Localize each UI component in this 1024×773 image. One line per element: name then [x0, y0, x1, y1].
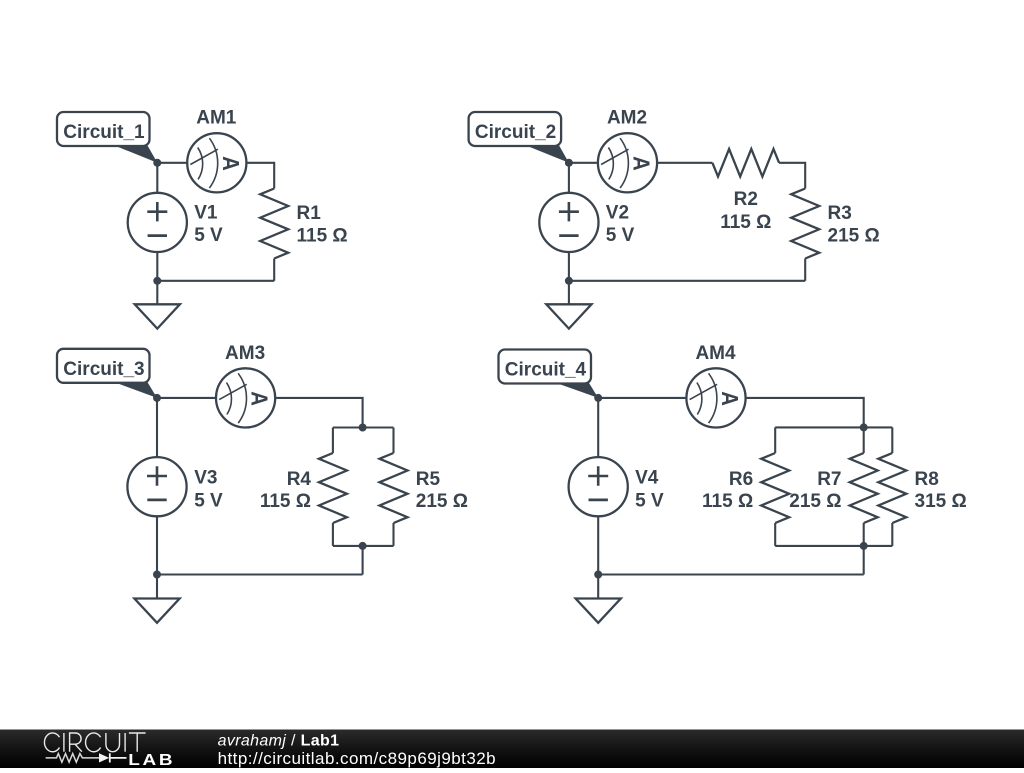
svg-text:AM2: AM2 — [607, 108, 647, 129]
wire R8 leads — [891, 427, 893, 546]
svg-text:R3: R3 — [828, 203, 852, 224]
wire bottom rail circuit 4 — [598, 573, 864, 575]
wire R1 bottom lead — [273, 259, 275, 281]
ground circuit 4 — [576, 599, 621, 623]
ammeter AM4 — [686, 368, 745, 427]
voltage source V1 — [128, 193, 187, 252]
wire node2 to V2 plus — [568, 163, 570, 193]
resistor R6 (vertical) — [761, 453, 789, 523]
ammeter AM2 — [598, 133, 657, 192]
node circuit1 bottom junction — [153, 277, 161, 285]
node circuit3 parallel top junction — [359, 424, 367, 432]
node circuit2 bottom junction — [565, 277, 573, 285]
ground circuit 3 — [134, 599, 179, 623]
wire V2 minus to bottom — [568, 252, 570, 281]
svg-text:avrahamj / Lab1: avrahamj / Lab1 — [218, 732, 340, 749]
svg-text:5 V: 5 V — [194, 490, 223, 511]
svg-text:115 Ω: 115 Ω — [260, 491, 311, 512]
svg-text:http://circuitlab.com/c89p69j9: http://circuitlab.com/c89p69j9bt32b — [218, 749, 496, 768]
svg-text:R1: R1 — [297, 203, 322, 224]
svg-text:315 Ω: 315 Ω — [915, 491, 967, 512]
wire to ground 2 — [568, 281, 570, 305]
resistor R8 (vertical) — [878, 453, 906, 523]
label callout Circuit_3 — [57, 349, 157, 398]
svg-text:115 Ω: 115 Ω — [702, 491, 753, 512]
voltage source V3 — [127, 457, 186, 516]
svg-text:AM3: AM3 — [225, 343, 265, 364]
wire AM1 to R1 top — [246, 163, 274, 189]
CircuitLab logo text CIRCUIT — [44, 733, 145, 752]
svg-text:LAB: LAB — [128, 752, 175, 768]
svg-text:215 Ω: 215 Ω — [828, 226, 880, 247]
svg-text:215 Ω: 215 Ω — [789, 491, 841, 512]
resistor R5 (vertical) — [380, 453, 408, 523]
wire V1 minus to bottom — [156, 252, 158, 281]
svg-text:R7: R7 — [817, 469, 841, 490]
label callout Circuit_2 — [469, 112, 569, 163]
node circuit2 top junction — [565, 159, 573, 167]
wire R2 to R3 top — [779, 163, 805, 189]
wire R5 leads — [392, 428, 394, 546]
wire R3 bottom lead — [804, 259, 806, 281]
wire parallel bottom to rail — [362, 546, 364, 575]
CircuitLab logo diode — [99, 753, 109, 762]
svg-text:R4: R4 — [287, 469, 312, 490]
svg-text:V1: V1 — [194, 202, 218, 223]
wire node4 to AM4 — [598, 397, 686, 399]
svg-text:5 V: 5 V — [635, 490, 664, 511]
wire node3 to V3 plus — [156, 398, 158, 457]
wire R7 leads — [863, 427, 865, 546]
svg-text:115 Ω: 115 Ω — [297, 226, 348, 247]
resistor R7 (vertical) — [850, 453, 878, 523]
wire AM4 to parallel top — [746, 398, 864, 428]
node circuit4 parallel bottom junction — [860, 542, 868, 550]
CircuitLab logo resistor squiggle — [46, 754, 99, 763]
node circuit4 bottom junction — [594, 571, 602, 579]
svg-text:5 V: 5 V — [606, 225, 635, 246]
wire node4 to V4 plus — [597, 398, 599, 457]
svg-text:A: A — [717, 391, 744, 406]
wire bottom rail circuit 1 — [157, 280, 274, 282]
svg-text:A: A — [628, 156, 655, 171]
label callout Circuit_4 — [499, 350, 599, 398]
svg-text:115 Ω: 115 Ω — [720, 212, 771, 233]
ammeter AM1 — [187, 133, 246, 192]
svg-text:A: A — [217, 156, 244, 171]
ground circuit 2 — [546, 304, 591, 328]
svg-text:Circuit_1: Circuit_1 — [63, 122, 145, 143]
wire R6 leads — [774, 427, 776, 546]
resistor R2 (horizontal) — [712, 149, 779, 177]
wire V3 minus to bottom — [156, 516, 158, 574]
node circuit3 bottom junction — [153, 571, 161, 579]
wire node2 to AM2 — [569, 162, 598, 164]
svg-text:215 Ω: 215 Ω — [416, 491, 468, 512]
wire to ground 1 — [156, 281, 158, 305]
wire AM2 to R2 — [657, 162, 712, 164]
wire bottom rail R4-R5 — [333, 545, 394, 547]
node circuit4 parallel top junction — [860, 423, 868, 431]
resistor R1 (vertical) — [260, 189, 288, 259]
svg-text:V3: V3 — [194, 468, 217, 489]
svg-text:R2: R2 — [734, 189, 758, 210]
svg-text:V4: V4 — [635, 468, 659, 489]
svg-text:AM1: AM1 — [196, 108, 237, 129]
svg-text:Circuit_3: Circuit_3 — [63, 359, 144, 380]
node circuit4 top junction — [594, 394, 602, 402]
ground circuit 1 — [135, 304, 180, 328]
node circuit3 top junction — [153, 394, 161, 402]
wire V4 minus to bottom — [597, 516, 599, 574]
svg-text:A: A — [246, 391, 273, 406]
wire bottom rail circuit 3 — [157, 573, 363, 575]
svg-text:Circuit_2: Circuit_2 — [475, 122, 556, 143]
wire to ground 3 — [156, 575, 158, 599]
wire R4 leads — [332, 428, 334, 546]
wire parallel bottom to rail 4 — [863, 546, 865, 575]
svg-text:R6: R6 — [729, 469, 753, 490]
resistor R3 (vertical) — [791, 189, 819, 259]
wire node1 to V1 plus — [156, 163, 158, 193]
wire top rail R6-R8 — [775, 426, 892, 428]
resistor R4 (vertical) — [319, 453, 347, 523]
wire bottom rail R6-R8 — [775, 545, 892, 547]
node circuit1 top junction — [153, 159, 161, 167]
wire AM3 to parallel top — [275, 398, 362, 428]
svg-text:R8: R8 — [915, 469, 939, 490]
svg-text:Circuit_4: Circuit_4 — [505, 360, 587, 381]
wire to ground 4 — [597, 575, 599, 599]
label callout Circuit_1 — [57, 112, 157, 163]
voltage source V2 — [539, 193, 598, 252]
svg-text:AM4: AM4 — [695, 343, 736, 364]
wire node1 to AM1 — [157, 162, 187, 164]
ammeter AM3 — [216, 368, 275, 427]
voltage source V4 — [569, 457, 628, 516]
wire bottom rail circuit 2 — [569, 280, 805, 282]
wire top rail R4-R5 — [333, 426, 394, 428]
node circuit3 parallel bottom junction — [359, 542, 367, 550]
wire node3 to AM3 — [157, 397, 216, 399]
svg-text:V2: V2 — [606, 202, 629, 223]
svg-text:R5: R5 — [416, 469, 441, 490]
svg-text:5 V: 5 V — [194, 225, 223, 246]
